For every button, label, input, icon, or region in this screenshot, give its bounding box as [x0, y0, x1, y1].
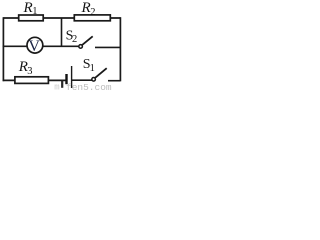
wire bottom left segment	[3, 79, 66, 81]
svg-text:fen5.com: fen5.com	[66, 82, 112, 92]
svg-text:2: 2	[72, 34, 77, 45]
svg-text:m: m	[54, 82, 59, 92]
svg-text:2: 2	[90, 7, 95, 18]
svg-text:R: R	[23, 0, 33, 16]
switch S1 pivot	[92, 78, 96, 82]
svg-text:1: 1	[90, 63, 95, 74]
resistor R1	[19, 15, 44, 21]
watermark dark tick	[61, 81, 63, 88]
wire middle branch right segment	[95, 46, 121, 48]
svg-text:3: 3	[27, 66, 32, 77]
switch S2 pivot	[79, 45, 83, 49]
wire top rail	[3, 17, 120, 19]
wire vertical branch between R1 and R2	[61, 18, 63, 47]
svg-text:V: V	[28, 38, 40, 55]
wire battery to S1	[72, 79, 92, 81]
voltmeter V	[27, 37, 43, 53]
wire middle branch left segment	[3, 45, 80, 47]
battery negative plate (short thick)	[65, 74, 67, 84]
wire S1 to right rail	[108, 80, 121, 82]
resistor R2	[74, 15, 110, 21]
svg-text:1: 1	[32, 6, 37, 17]
switch S1 blade	[95, 68, 106, 78]
wire right rail	[119, 17, 121, 81]
resistor R3	[15, 77, 49, 84]
svg-text:R: R	[81, 0, 91, 16]
battery positive plate (long thin)	[71, 66, 73, 88]
wire left rail	[2, 17, 4, 81]
switch S2 blade	[82, 36, 93, 45]
